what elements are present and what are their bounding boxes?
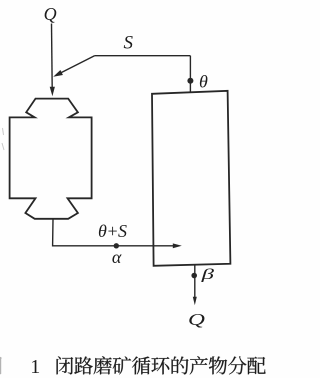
caption char 产 bbox=[190, 356, 208, 374]
wire classifier top inlet (vertical into node theta) bbox=[189, 56, 191, 93]
scan artifact marks bbox=[2, 128, 4, 150]
caption char 图 (clipped at left edge, faint) bbox=[0, 357, 2, 375]
wire classifier bottom outlet down bbox=[194, 265, 196, 298]
node alpha (dot on mill discharge line) bbox=[114, 243, 119, 248]
svg-text:θ: θ bbox=[199, 71, 208, 91]
svg-text:α: α bbox=[112, 247, 122, 267]
svg-text:1: 1 bbox=[30, 356, 40, 378]
svg-text:θ+S: θ+S bbox=[98, 221, 127, 241]
caption char 物 bbox=[209, 356, 227, 374]
node theta (dot on classifier inlet) bbox=[187, 78, 193, 84]
wire mill discharge: down then right to classifier bbox=[53, 220, 175, 246]
wire S return horizontal bbox=[95, 55, 191, 57]
wire S return diagonal to feed line bbox=[58, 56, 95, 74]
node beta (dot on classifier outlet) bbox=[191, 273, 197, 279]
caption char 磨 bbox=[94, 356, 112, 374]
caption char 闭 bbox=[57, 356, 74, 374]
arrowhead Q feed into mill top bbox=[50, 87, 55, 97]
wire Q feed vertical into mill bbox=[51, 24, 54, 89]
mill (grinding mill symbol) bbox=[10, 99, 92, 219]
caption char 矿 bbox=[113, 356, 131, 374]
arrowhead S return onto feed line bbox=[53, 70, 63, 77]
svg-text:Q: Q bbox=[44, 4, 57, 24]
arrowhead mill discharge into classifier bbox=[173, 243, 182, 248]
caption char 配 bbox=[247, 357, 265, 375]
caption char 环 bbox=[151, 357, 169, 374]
caption char 分 bbox=[228, 356, 247, 374]
caption char 循 bbox=[132, 356, 150, 374]
arrowhead classifier bottom outlet Q bbox=[193, 297, 197, 306]
svg-text:Q: Q bbox=[188, 311, 205, 329]
svg-text:S: S bbox=[124, 33, 134, 54]
svg-text:β: β bbox=[200, 267, 215, 283]
classifier (rectangle) bbox=[152, 91, 230, 266]
caption char 路 bbox=[74, 356, 93, 374]
caption char 的 bbox=[172, 356, 189, 374]
